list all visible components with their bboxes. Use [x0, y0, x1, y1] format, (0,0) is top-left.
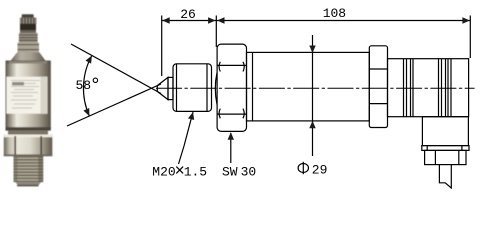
wire: dim 108 extension line right [469, 16, 471, 59]
thread runout line [206, 64, 208, 112]
hex nut chamfer crescent lower-right [243, 109, 244, 119]
main body [247, 52, 370, 121]
hex nut chamfer crescent upper-left [219, 62, 220, 72]
photo: cylinder top edge [6, 61, 51, 65]
photo: hex nut [4, 135, 53, 157]
arrow dim108 right [462, 17, 470, 23]
cone tip [157, 77, 168, 99]
arrow phi29 up [309, 121, 315, 129]
photo: ring stack [19, 33, 38, 43]
hex nut chamfer crescent lower-left [219, 109, 220, 119]
photo: dark band section [20, 24, 36, 33]
dimension line 108 [216, 20, 470, 22]
58 degree lower construction line [67, 84, 161, 126]
photo: threaded stud [14, 156, 44, 182]
hex nut chamfer crescent upper-right [243, 62, 244, 72]
thread body M20 [173, 64, 212, 112]
svg-text:29: 29 [312, 162, 328, 177]
arrow dim26 left [162, 17, 170, 23]
thread chamfer line [176, 64, 178, 112]
collar facet line top [369, 68, 387, 70]
svg-text:1.5: 1.5 [184, 165, 207, 180]
M20 leader line [179, 112, 194, 164]
connector gland nut [425, 150, 466, 164]
photo: step ring [18, 43, 40, 53]
SW30 leader line [230, 133, 232, 163]
photo: label [7, 77, 48, 114]
photo: knurled ring [20, 18, 37, 24]
body step line [252, 52, 254, 121]
wire: dim 26 extension line left [161, 16, 163, 77]
arrow dim26 right [208, 17, 216, 23]
photo: shoulder flare [11, 53, 46, 61]
svg-text:M20: M20 [152, 165, 175, 180]
arrow arc top [86, 56, 92, 64]
washer crescent [215, 73, 217, 105]
rib lines group 2 [438, 59, 440, 117]
rib lines group 1 [403, 59, 405, 117]
svg-text:108: 108 [323, 6, 346, 21]
phi29 dimension [312, 35, 314, 156]
cable tab [439, 165, 451, 188]
svg-text:30: 30 [241, 165, 257, 180]
photo: cylinder bottom edge [6, 127, 51, 130]
photo: cylinder body [6, 64, 51, 130]
degree symbol [93, 78, 97, 82]
arrow arc bottom [83, 108, 89, 116]
arrow phi29 down [309, 46, 315, 54]
svg-text:58: 58 [76, 78, 92, 93]
wire: dim 26/108 extension line middle [215, 16, 217, 48]
photo: neck under cylinder [8, 131, 48, 135]
label phi29 [298, 164, 308, 173]
M20x1.5 leader [179, 112, 194, 164]
centerline [156, 87, 475, 89]
arrow M20 [188, 112, 194, 120]
hex nut facet line bottom [217, 113, 246, 115]
hex nut facet line top [217, 64, 246, 66]
hex collar [369, 46, 387, 128]
rear housing [388, 59, 469, 117]
svg-text:26: 26 [180, 7, 196, 22]
photo: stud tip [16, 182, 42, 186]
svg-text:SW: SW [222, 165, 238, 180]
connector flange [422, 146, 469, 151]
arrow dim108 left [217, 17, 225, 23]
58 degree arc [83, 56, 91, 117]
58 degree upper construction line [71, 44, 161, 94]
arrow SW30 [228, 132, 234, 140]
neck between cone and thread [168, 77, 173, 99]
connector plug body [422, 117, 468, 146]
hex nut SW30 [217, 44, 246, 131]
SW30 leader [230, 133, 232, 163]
collar facet line bottom [369, 103, 387, 105]
phi29 dimension line [312, 35, 314, 156]
dimension line 26 [162, 20, 217, 22]
photo: connector top screw tip [22, 14, 34, 18]
